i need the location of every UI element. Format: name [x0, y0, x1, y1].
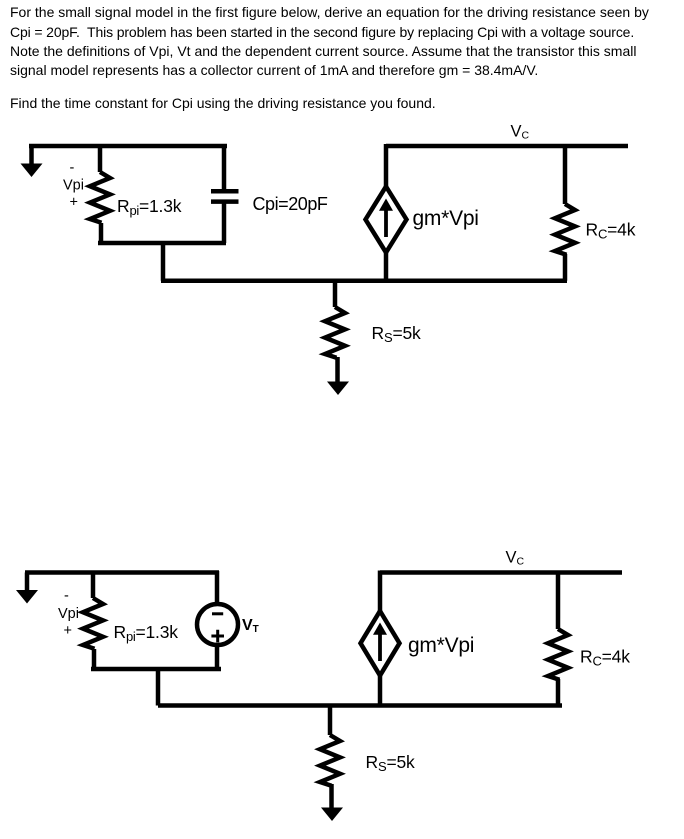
svg-text:Rpi=1.3k: Rpi=1.3k	[117, 196, 182, 218]
svg-text:VT: VT	[242, 617, 259, 635]
svg-text:VC: VC	[506, 549, 525, 568]
svg-text:gm*Vpi: gm*Vpi	[413, 207, 479, 230]
svg-text:Cpi=20pF: Cpi=20pF	[253, 194, 328, 214]
svg-text:gm*Vpi: gm*Vpi	[408, 634, 474, 657]
svg-text:RC=4k: RC=4k	[586, 220, 636, 242]
svg-text:RC=4k: RC=4k	[580, 647, 630, 669]
svg-text:Vpi: Vpi	[63, 178, 84, 194]
svg-text:-: -	[70, 160, 75, 176]
svg-text:+: +	[70, 195, 78, 211]
svg-text:-: -	[64, 588, 69, 604]
svg-text:RS=5k: RS=5k	[366, 752, 415, 774]
svg-text:Rpi=1.3k: Rpi=1.3k	[114, 622, 179, 644]
svg-text:Vpi: Vpi	[58, 606, 79, 622]
svg-text:RS=5k: RS=5k	[372, 323, 421, 345]
svg-text:+: +	[64, 623, 72, 639]
svg-text:VC: VC	[511, 122, 530, 141]
